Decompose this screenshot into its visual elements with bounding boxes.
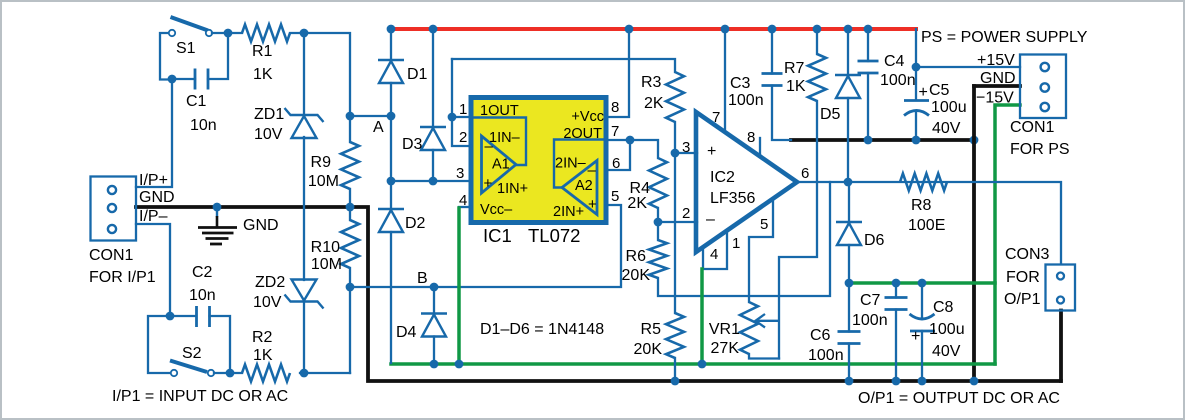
label 2IN- bbox=[555, 156, 587, 172]
wire -15V green from CON1 PS bbox=[995, 105, 1020, 364]
label IC2 pin 7 bbox=[712, 109, 720, 126]
wire R4 to node bbox=[657, 208, 659, 240]
label C8 plus bbox=[911, 328, 920, 345]
node C6 on GND bus bbox=[845, 377, 854, 386]
wire -15V to C8 bbox=[921, 283, 923, 318]
svg-text:100n: 100n bbox=[852, 312, 888, 329]
wire C5 to GND bus bbox=[915, 111, 917, 140]
svg-text:A1: A1 bbox=[492, 157, 510, 173]
label C4 bbox=[884, 53, 905, 70]
svg-text:27K: 27K bbox=[711, 340, 740, 357]
node C4 on GND bus bbox=[864, 136, 873, 145]
svg-text:–: – bbox=[706, 211, 715, 228]
label C7 value 100n bbox=[852, 312, 888, 329]
op-amp IC1 TL072 body bbox=[471, 98, 606, 223]
wire pin3 node to R5 bbox=[674, 153, 676, 313]
label CON3 bbox=[1005, 246, 1050, 263]
svg-text:10n: 10n bbox=[189, 287, 216, 304]
label R3 bbox=[641, 74, 662, 91]
wire I/P- from CON1 bbox=[136, 224, 170, 316]
node A junction on R9 column bbox=[346, 112, 355, 121]
capacitor C8 electrolytic bbox=[910, 314, 936, 331]
label IC1 pin 4 bbox=[459, 192, 467, 209]
svg-text:10n: 10n bbox=[190, 117, 217, 134]
label IC1 pin 6 bbox=[612, 155, 620, 172]
label IC2 plus bbox=[707, 143, 716, 160]
wire S1 to R1 bbox=[212, 32, 242, 34]
label R5 value 20K bbox=[634, 341, 663, 358]
node C7 on GND bus bbox=[892, 377, 901, 386]
zener diode ZD2 bbox=[285, 280, 324, 309]
wire output to D6 bbox=[848, 182, 850, 223]
node D1 top on red rail bbox=[387, 25, 396, 34]
wire R2 to B column bbox=[300, 372, 350, 374]
wire +15V to C5 bbox=[915, 67, 917, 100]
label PS = POWER SUPPLY bbox=[921, 29, 1088, 46]
svg-text:100u: 100u bbox=[929, 321, 965, 338]
svg-text:B: B bbox=[417, 270, 428, 287]
wire D5 to output bbox=[847, 98, 849, 182]
label FOR bbox=[1006, 269, 1040, 286]
label C6 bbox=[810, 327, 831, 344]
label LF356 bbox=[710, 190, 755, 207]
svg-text:I/P1 = INPUT DC OR AC: I/P1 = INPUT DC OR AC bbox=[112, 388, 288, 405]
wire GND black bus left bbox=[136, 207, 1061, 381]
svg-text:1IN+: 1IN+ bbox=[497, 181, 528, 197]
svg-text:C2: C2 bbox=[192, 264, 213, 281]
label ZD2 value 10V bbox=[253, 294, 282, 311]
node R4/R6 junction bbox=[654, 218, 663, 227]
wire IC1 pin6 to pin7 bbox=[606, 140, 630, 170]
label O/P1 bbox=[1004, 291, 1041, 308]
wire red to D1 bbox=[390, 29, 392, 60]
svg-text:I/P–: I/P– bbox=[139, 208, 168, 225]
label D1-D6 = 1N4148 bbox=[480, 321, 604, 338]
svg-text:10V: 10V bbox=[254, 126, 283, 143]
capacitor C7 bbox=[885, 298, 908, 310]
wire D3 to pin3 line bbox=[432, 150, 434, 181]
svg-text:D2: D2 bbox=[405, 215, 426, 232]
capacitor C2 bbox=[197, 306, 210, 327]
svg-text:+: + bbox=[588, 196, 597, 213]
resistor R7 bbox=[808, 54, 826, 101]
node R9/R10 on GND bus bbox=[346, 203, 355, 212]
wire R9 to GND bus bbox=[349, 189, 351, 207]
label A1 plus bbox=[484, 175, 493, 192]
wire R5 to GND bus bbox=[674, 358, 676, 381]
svg-text:40V: 40V bbox=[932, 120, 961, 137]
label R10 value 10M bbox=[311, 256, 342, 273]
wire I/P+ from CON1 bbox=[136, 80, 172, 188]
diode D4 bbox=[421, 314, 447, 337]
svg-text:1: 1 bbox=[459, 101, 467, 118]
wire red to C3 bbox=[771, 29, 773, 74]
label S1 bbox=[176, 40, 196, 57]
label C2 bbox=[192, 264, 213, 281]
svg-text:R1: R1 bbox=[252, 43, 273, 60]
label CON1 left bbox=[89, 247, 134, 264]
svg-text:CON1: CON1 bbox=[1010, 119, 1055, 136]
switch S1 bbox=[169, 17, 212, 36]
wire IC1 pin1 feedback to pin2 bbox=[452, 59, 471, 146]
diode D5 bbox=[835, 75, 861, 98]
svg-text:R8: R8 bbox=[911, 197, 932, 214]
label node B bbox=[417, 270, 428, 287]
capacitor C6 bbox=[838, 332, 861, 344]
label C2 value 10n bbox=[189, 287, 216, 304]
svg-text:2IN+: 2IN+ bbox=[553, 204, 584, 220]
wire IC2 pin7 to +15V bbox=[724, 29, 726, 131]
label node A bbox=[373, 119, 384, 136]
svg-text:S2: S2 bbox=[182, 345, 202, 362]
svg-text:–: – bbox=[485, 138, 494, 155]
label R4 value 2K bbox=[627, 195, 647, 212]
svg-text:100n: 100n bbox=[728, 92, 764, 109]
label C7 bbox=[860, 292, 881, 309]
node C3 on red rail bbox=[768, 25, 777, 34]
wire D1 to node A bbox=[390, 83, 392, 116]
wire C4 to GND bus bbox=[867, 73, 869, 140]
label R6 bbox=[626, 248, 647, 265]
svg-text:100n: 100n bbox=[880, 72, 916, 89]
wire GND black bus right bbox=[791, 138, 974, 142]
node D3 top on red rail bbox=[429, 25, 438, 34]
wire IC2 pin8 stub bbox=[759, 138, 761, 156]
label IC1 pin 3 bbox=[456, 165, 464, 182]
svg-text:PS = POWER SUPPLY: PS = POWER SUPPLY bbox=[921, 29, 1088, 46]
node IC1 pin1 junction bbox=[448, 113, 457, 122]
label R1 bbox=[252, 43, 273, 60]
wire IC2 pin4 green to -15V bbox=[700, 269, 704, 364]
wire GND bus to R10 bbox=[349, 207, 351, 220]
label R3 value 2K bbox=[644, 95, 664, 112]
label VR1 value 27K bbox=[711, 340, 740, 357]
svg-text:I/P+: I/P+ bbox=[139, 172, 168, 189]
capacitor C3 bbox=[762, 74, 783, 86]
svg-text:100E: 100E bbox=[908, 217, 945, 234]
wire R6 to feedback bbox=[658, 182, 830, 296]
svg-text:GND: GND bbox=[139, 189, 175, 206]
svg-text:7: 7 bbox=[611, 123, 619, 140]
wire C3 to GND bus bbox=[772, 86, 791, 141]
label R7 value 1K bbox=[786, 78, 806, 95]
label I/P1 = INPUT DC OR AC bbox=[112, 388, 288, 405]
svg-text:–: – bbox=[588, 162, 597, 179]
svg-text:VR1: VR1 bbox=[709, 321, 740, 338]
wire IC1 pin4 stub bbox=[459, 206, 471, 208]
node C1 left junction bbox=[168, 75, 177, 84]
svg-text:R7: R7 bbox=[784, 60, 805, 77]
label C1 value 10n bbox=[190, 117, 217, 134]
label IC2 pin 8 bbox=[747, 129, 755, 146]
svg-text:FOR: FOR bbox=[1006, 269, 1040, 286]
wire VR1 wiper to R7 bbox=[779, 101, 817, 359]
label ZD1 value 10V bbox=[254, 126, 283, 143]
svg-text:1OUT: 1OUT bbox=[480, 103, 519, 119]
svg-text:1K: 1K bbox=[253, 66, 273, 83]
label R8 value 100E bbox=[908, 217, 945, 234]
svg-text:GND: GND bbox=[980, 70, 1016, 87]
svg-text:1K: 1K bbox=[786, 78, 806, 95]
label C5 plus bbox=[919, 84, 928, 101]
node D6 on -15V rail bbox=[845, 279, 854, 288]
label R5 bbox=[641, 321, 662, 338]
svg-text:40V: 40V bbox=[932, 343, 961, 360]
resistor R10 bbox=[341, 220, 359, 268]
svg-text:10M: 10M bbox=[311, 256, 342, 273]
wire A1 out to R3 bbox=[452, 59, 675, 72]
resistor R3 bbox=[666, 72, 684, 122]
wire GND black CON3 stub bbox=[1059, 311, 1063, 382]
label S2 bbox=[182, 345, 202, 362]
label IC1 pin 2 bbox=[459, 129, 467, 146]
node R7 on red rail bbox=[813, 25, 822, 34]
svg-text:10V: 10V bbox=[253, 294, 282, 311]
wire C2 left branch bbox=[170, 315, 196, 317]
svg-text:C8: C8 bbox=[933, 299, 954, 316]
wire pin3 node to D2 bbox=[390, 181, 392, 209]
wire IC1 pin7 line bbox=[606, 140, 658, 158]
svg-text:R10: R10 bbox=[311, 239, 340, 256]
svg-text:R9: R9 bbox=[311, 154, 332, 171]
label GND symbol bbox=[243, 217, 279, 234]
label IC2 pin 4 bbox=[710, 246, 718, 263]
node IC2 pin7 on red rail bbox=[721, 25, 730, 34]
svg-text:C7: C7 bbox=[860, 292, 881, 309]
node D5 on red rail bbox=[844, 25, 853, 34]
svg-text:+: + bbox=[911, 328, 920, 345]
wire R10 to node B bbox=[349, 268, 351, 373]
wire C1 left branch bbox=[172, 78, 195, 80]
svg-text:A: A bbox=[373, 119, 384, 136]
label IC2 pin 6 bbox=[801, 165, 809, 182]
op-amp A1 triangle bbox=[482, 136, 517, 193]
label R1 value 1K bbox=[253, 66, 273, 83]
node C5 on GND bus bbox=[912, 136, 921, 145]
label IC2 bbox=[710, 169, 735, 186]
node D4 top on B line bbox=[430, 283, 439, 292]
wire +15V corner to CON1 PS bbox=[916, 29, 1020, 67]
label O/P1 = OUTPUT DC OR AC bbox=[858, 390, 1060, 407]
svg-text:20K: 20K bbox=[622, 267, 651, 284]
wire S2 to R2 bbox=[214, 372, 242, 374]
svg-text:4: 4 bbox=[710, 246, 718, 263]
node C7 on -15V rail bbox=[892, 279, 901, 288]
label ZD2 bbox=[255, 274, 285, 291]
wire GND black to CON1 PS bbox=[974, 84, 1020, 88]
label D6 bbox=[864, 232, 885, 249]
wire -15V green bottom rail bbox=[391, 362, 995, 366]
svg-text:C4: C4 bbox=[884, 53, 905, 70]
node D3 on pin3 line bbox=[429, 177, 438, 186]
svg-text:+: + bbox=[919, 84, 928, 101]
wire C8 to GND bus bbox=[921, 331, 923, 381]
svg-text:5: 5 bbox=[611, 188, 619, 205]
svg-text:8: 8 bbox=[611, 99, 619, 116]
label IC2 pin 2 bbox=[682, 205, 690, 222]
wire VR1 bottom loop bbox=[749, 354, 779, 359]
svg-text:CON3: CON3 bbox=[1005, 246, 1050, 263]
capacitor C4 bbox=[858, 61, 879, 73]
label A2 plus bbox=[588, 196, 597, 213]
wire -15V to C7 bbox=[895, 283, 897, 298]
diode D3 bbox=[420, 127, 446, 150]
resistor R6 bbox=[649, 240, 667, 278]
label +15V bbox=[977, 52, 1015, 69]
wire +15V red rail bbox=[391, 27, 916, 31]
wire D4 to green rail bbox=[433, 337, 435, 365]
wire D2 to green rail bbox=[390, 232, 392, 363]
node IC1 pin8 on red rail bbox=[625, 25, 634, 34]
svg-text:FOR PS: FOR PS bbox=[1010, 141, 1070, 158]
wire IC2 pin4 stub bbox=[703, 230, 727, 269]
svg-text:IC1: IC1 bbox=[483, 225, 512, 246]
svg-text:D1–D6 = 1N4148: D1–D6 = 1N4148 bbox=[480, 321, 604, 338]
connector CON1 for I/P1 bbox=[91, 177, 137, 241]
label C5 value 40V bbox=[932, 120, 961, 137]
label 1IN- bbox=[489, 130, 521, 146]
svg-text:O/P1 = OUTPUT DC OR AC: O/P1 = OUTPUT DC OR AC bbox=[858, 390, 1060, 407]
potentiometer VR1 bbox=[740, 302, 758, 354]
node ground stub on bus bbox=[213, 203, 222, 212]
label IC1 pin 5 bbox=[611, 188, 619, 205]
label IC1 pin 1 bbox=[459, 101, 467, 118]
svg-text:C1: C1 bbox=[186, 93, 207, 110]
op-amp IC2 LF356 triangle bbox=[696, 112, 797, 252]
node IC2 pin4 on green rail bbox=[698, 360, 707, 369]
label FOR I/P1 bbox=[89, 269, 156, 286]
label FOR PS bbox=[1010, 141, 1070, 158]
svg-text:2: 2 bbox=[682, 205, 690, 222]
svg-text:7: 7 bbox=[712, 109, 720, 126]
svg-text:5: 5 bbox=[760, 216, 768, 233]
label IC1 pin 8 bbox=[611, 99, 619, 116]
label R6 value 20K bbox=[622, 267, 651, 284]
node R1 output junction bbox=[300, 29, 309, 38]
label IC2 pin 5 bbox=[760, 216, 768, 233]
label IC1 TL072 bbox=[483, 225, 580, 246]
label C6 value 100n bbox=[808, 347, 844, 364]
label A1 minus bbox=[485, 138, 494, 155]
zener diode ZD1 bbox=[285, 108, 324, 138]
svg-text:TL072: TL072 bbox=[528, 225, 580, 246]
svg-text:LF356: LF356 bbox=[710, 190, 755, 207]
wire R1 node to ZD1 bbox=[303, 33, 305, 115]
wire C7 to GND bus bbox=[895, 310, 897, 382]
wire C6 to GND bus bbox=[848, 344, 850, 382]
resistor R9 bbox=[341, 142, 359, 189]
svg-text:+: + bbox=[707, 143, 716, 160]
label 2IN+ bbox=[553, 204, 584, 220]
node GND bus corner junction bbox=[970, 136, 979, 145]
node C8 on -15V rail bbox=[918, 279, 927, 288]
label 1IN+ bbox=[497, 181, 528, 197]
svg-text:1K: 1K bbox=[253, 347, 273, 364]
svg-text:1: 1 bbox=[732, 235, 740, 252]
node A on D1 column bbox=[387, 112, 396, 121]
svg-text:D3: D3 bbox=[402, 136, 423, 153]
wire red to D3 bbox=[432, 29, 434, 127]
svg-text:ZD1: ZD1 bbox=[254, 106, 284, 123]
wire A2 output to 2OUT bbox=[554, 140, 604, 188]
wire A to R9 bbox=[349, 116, 351, 142]
wire S2 left branch bbox=[148, 316, 170, 373]
label I/P+ bbox=[139, 172, 168, 189]
label C4 value 100n bbox=[880, 72, 916, 89]
wiper arrow VR1 bbox=[756, 314, 780, 328]
svg-text:C3: C3 bbox=[730, 75, 751, 92]
label C5 value 100u bbox=[931, 99, 967, 116]
svg-text:10M: 10M bbox=[308, 173, 339, 190]
diode D2 bbox=[378, 209, 404, 232]
svg-text:D6: D6 bbox=[864, 232, 885, 249]
svg-text:O/P1: O/P1 bbox=[1004, 291, 1041, 308]
label C3 bbox=[730, 75, 751, 92]
connector CON1 for PS bbox=[1020, 55, 1066, 119]
wire IC1 pin1 stub bbox=[452, 116, 471, 118]
node IC2 pin3 junction bbox=[671, 149, 680, 158]
svg-text:8: 8 bbox=[747, 129, 755, 146]
label A2 minus bbox=[588, 162, 597, 179]
svg-text:2K: 2K bbox=[627, 195, 647, 212]
resistor R2 bbox=[242, 365, 290, 382]
wire S1 left loop bbox=[160, 33, 172, 80]
label IC1 pin 7 bbox=[611, 123, 619, 140]
label IC2 pin 3 bbox=[682, 139, 690, 156]
label D5 bbox=[820, 106, 841, 123]
wire IC1 pin4 green to -15V bbox=[457, 208, 461, 364]
svg-text:IC2: IC2 bbox=[710, 169, 735, 186]
wire R1 to node bbox=[290, 33, 350, 116]
label 2OUT bbox=[563, 126, 602, 142]
wire IC2 output line bbox=[797, 182, 1061, 264]
resistor R1 bbox=[242, 25, 290, 42]
label CON1 PS bbox=[1010, 119, 1055, 136]
label +Vcc bbox=[571, 109, 604, 125]
node C8 on GND bus bbox=[918, 377, 927, 386]
node C5 top junction bbox=[912, 63, 921, 72]
op-amp A2 triangle bbox=[562, 161, 597, 215]
label C5 bbox=[929, 82, 950, 99]
label I/P- bbox=[139, 208, 168, 225]
wire -15V green mid rail bbox=[850, 281, 995, 285]
node C2 left junction bbox=[166, 312, 175, 321]
node D4 on green rail bbox=[430, 360, 439, 369]
wire pin3 line to IC1 bbox=[391, 180, 471, 182]
wire node A line bbox=[350, 115, 391, 117]
wire -15V to C6 bbox=[848, 283, 850, 332]
svg-text:D1: D1 bbox=[407, 66, 428, 83]
label R7 bbox=[784, 60, 805, 77]
svg-text:S1: S1 bbox=[176, 40, 196, 57]
label R10 bbox=[311, 239, 340, 256]
svg-text:2K: 2K bbox=[644, 95, 664, 112]
svg-text:3: 3 bbox=[682, 139, 690, 156]
wire IC2 pin2 stub bbox=[658, 221, 697, 223]
wire red to D5 bbox=[847, 29, 849, 75]
node C4 on red rail bbox=[864, 25, 873, 34]
svg-text:R6: R6 bbox=[626, 248, 647, 265]
label D2 bbox=[405, 215, 426, 232]
label R2 bbox=[252, 329, 273, 346]
node S1/C1 right junction bbox=[224, 29, 233, 38]
wire GND black vertical PS bbox=[972, 86, 976, 381]
connector CON3 bbox=[1046, 265, 1076, 311]
node IC1 pin4 on green rail bbox=[455, 360, 464, 369]
svg-text:FOR I/P1: FOR I/P1 bbox=[89, 269, 156, 286]
label R9 value 10M bbox=[308, 173, 339, 190]
label A1 bbox=[492, 157, 510, 173]
